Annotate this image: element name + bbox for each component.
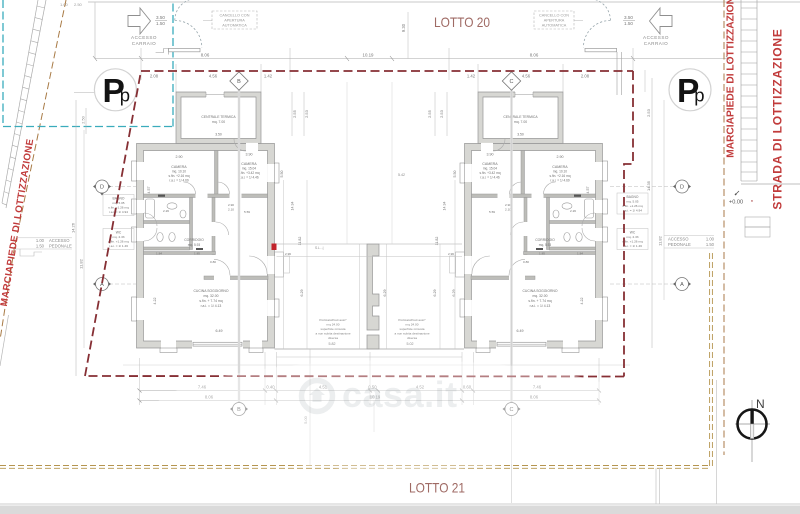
svg-text:CARRAIO: CARRAIO xyxy=(644,41,668,46)
accesso pedonale left xyxy=(36,238,72,249)
CT side dims left xyxy=(292,109,444,118)
wc bottom wall xyxy=(144,247,190,250)
svg-text:s.fin. +3.42 mq: s.fin. +3.42 mq xyxy=(239,171,260,175)
red wall marker xyxy=(272,244,277,251)
svg-text:A: A xyxy=(680,282,684,288)
wc callout left xyxy=(103,229,134,250)
center gap verticals xyxy=(346,82,348,244)
bagno/wc divider xyxy=(144,221,190,224)
svg-text:a non subita destinazione: a non subita destinazione xyxy=(315,332,350,336)
cancello box right xyxy=(534,11,574,29)
teal dashed right vertical xyxy=(172,0,174,127)
svg-text:mq 24.00: mq 24.00 xyxy=(327,323,340,327)
svg-text:mq. 5.93: mq. 5.93 xyxy=(188,243,201,247)
svg-text:CENTRALE TERMICA: CENTRALE TERMICA xyxy=(503,115,538,119)
svg-text:casa.it: casa.it xyxy=(342,374,458,415)
right cucina label xyxy=(517,289,558,333)
brown dashed lot strip line xyxy=(723,0,725,455)
svg-text:r.a.i. = 1/ 4.46: r.a.i. = 1/ 4.46 xyxy=(480,176,500,180)
svg-text:1.50: 1.50 xyxy=(156,21,165,26)
svg-text:5.02: 5.02 xyxy=(407,342,414,346)
sidewalk right rail (diagonal) xyxy=(6,0,46,208)
tan double dashed right vertical xyxy=(709,253,711,468)
tan double dashed bottom line xyxy=(0,465,711,467)
svg-text:3.50: 3.50 xyxy=(215,133,222,137)
section marker C bottom xyxy=(503,403,521,416)
door arcs xyxy=(144,139,267,275)
svg-text:r.a.i. = 1/ 4.69: r.a.i. = 1/ 4.69 xyxy=(550,179,570,183)
right dim vertical 1 xyxy=(651,78,653,348)
svg-text:STRADA DI LOTTIZZAZIONE: STRADA DI LOTTIZZAZIONE xyxy=(771,28,785,209)
svg-text:r.a.i. = 1/ 4.94: r.a.i. = 1/ 4.94 xyxy=(109,210,128,214)
section marker D right xyxy=(673,180,691,193)
svg-text:2.55: 2.55 xyxy=(292,109,297,118)
right misc dims xyxy=(448,203,583,264)
teal dashed left vertical xyxy=(2,0,4,127)
small dim verticals right of red line xyxy=(644,70,646,92)
svg-text:mq. 5.93: mq. 5.93 xyxy=(539,243,552,247)
svg-text:3.50: 3.50 xyxy=(517,133,524,137)
svg-text:S.L. -|: S.L. -| xyxy=(315,246,324,250)
svg-text:mq. 32.00: mq. 32.00 xyxy=(532,294,547,298)
svg-text:6.49: 6.49 xyxy=(216,329,223,333)
svg-text:5.50: 5.50 xyxy=(280,171,284,178)
ACCESSO CARRAIO right xyxy=(643,35,669,46)
svg-text:2.90: 2.90 xyxy=(228,203,234,207)
svg-text:s.fin. +3.42 mq: s.fin. +3.42 mq xyxy=(480,171,501,175)
left gate swing arcs xyxy=(175,0,202,47)
sidewalk slab rungs right xyxy=(741,8,757,181)
svg-text:10.19: 10.19 xyxy=(363,53,375,58)
svg-text:r.a.i. = 1/ 4.94: r.a.i. = 1/ 4.94 xyxy=(623,209,642,213)
bottom gray bar xyxy=(0,506,800,514)
svg-text:1.50: 1.50 xyxy=(36,244,45,249)
right wall entrance door gap xyxy=(267,256,275,274)
svg-text:CAMERA: CAMERA xyxy=(552,165,568,169)
svg-text:1.00: 1.00 xyxy=(706,237,715,242)
svg-text:N: N xyxy=(756,397,765,411)
dim extension verticals top xyxy=(141,12,633,92)
casa.it watermark xyxy=(302,374,458,415)
svg-text:LOTTO 21: LOTTO 21 xyxy=(409,480,465,496)
svg-text:mq. 2.33: mq. 2.33 xyxy=(112,235,124,239)
svg-text:ACCESSO: ACCESSO xyxy=(131,35,157,40)
sidewalk corner line xyxy=(741,183,800,185)
svg-text:mq. 2.33: mq. 2.33 xyxy=(626,235,638,239)
porch vertical guide lines xyxy=(284,180,455,349)
compass rose xyxy=(751,400,753,462)
svg-text:3.90: 3.90 xyxy=(487,153,494,157)
svg-text:mq. 32.00: mq. 32.00 xyxy=(203,294,218,298)
pedestrian path edges left xyxy=(16,237,72,239)
svg-text:1.84: 1.84 xyxy=(577,252,583,256)
cancello leader left xyxy=(203,20,212,22)
svg-text:diversa: diversa xyxy=(328,336,338,340)
section marker D left xyxy=(93,180,111,196)
section marker A left xyxy=(93,278,111,291)
svg-text:ACCESSO: ACCESSO xyxy=(668,237,689,242)
svg-text:1.50: 1.50 xyxy=(706,242,715,247)
svg-text:0.80: 0.80 xyxy=(210,260,216,264)
right arrow dims 3.50/1.50 xyxy=(624,15,633,26)
svg-text:1.42: 1.42 xyxy=(467,74,476,79)
right gate swing arcs xyxy=(583,0,610,47)
section line C vertical xyxy=(510,88,512,403)
bottom bar top line xyxy=(0,503,800,505)
red boundary top edge xyxy=(141,70,633,72)
parking symbol right xyxy=(669,69,711,111)
svg-text:CANCELLO CON: CANCELLO CON xyxy=(220,14,250,18)
svg-text:CAMERA: CAMERA xyxy=(482,162,498,166)
long verticals below plan xyxy=(309,349,311,465)
svg-text:6.29: 6.29 xyxy=(452,290,456,297)
svg-text:11.82: 11.82 xyxy=(79,258,84,268)
svg-text:3.50: 3.50 xyxy=(624,15,633,20)
svg-text:14.35: 14.35 xyxy=(646,180,651,191)
svg-text:r.a.i. = 1/ 4.13: r.a.i. = 1/ 4.13 xyxy=(201,304,222,308)
svg-text:AUTOMATICA: AUTOMATICA xyxy=(222,24,247,28)
double gray vertical below tan line xyxy=(655,468,657,504)
centrale termica annex walls xyxy=(176,92,261,144)
bagno callout left xyxy=(103,195,134,216)
right camera 15.04 label xyxy=(480,153,501,180)
svg-text:r.a.i. = 1/ 1.46: r.a.i. = 1/ 1.46 xyxy=(109,244,128,248)
svg-text:6.49: 6.49 xyxy=(517,329,524,333)
svg-text:8.06: 8.06 xyxy=(201,53,210,58)
svg-text:ACCESSO: ACCESSO xyxy=(643,35,669,40)
top dimension chain line xyxy=(95,58,728,60)
radiator marks xyxy=(158,195,165,197)
svg-text:2.10: 2.10 xyxy=(228,208,234,212)
svg-text:s.fin. +1.26 mq: s.fin. +1.26 mq xyxy=(108,206,129,210)
section D leader dashes xyxy=(109,187,675,285)
svg-text:14.26: 14.26 xyxy=(71,222,76,233)
svg-text:CAMERA: CAMERA xyxy=(241,162,257,166)
left arrow dims 3.50/1.50 xyxy=(156,15,165,26)
svg-text:D: D xyxy=(680,185,684,191)
wc fixtures xyxy=(157,233,163,242)
left misc dims xyxy=(156,203,291,264)
svg-text:MARCIAPIEDE DI LOTTIZZAZIONE: MARCIAPIEDE DI LOTTIZZAZIONE xyxy=(726,0,737,158)
svg-text:r.a.i. = 1/ 4.69: r.a.i. = 1/ 4.69 xyxy=(169,179,189,183)
svg-text:D: D xyxy=(100,185,104,191)
right access arrow xyxy=(650,8,673,34)
svg-text:ACCESSO: ACCESSO xyxy=(49,238,70,243)
kitchen top wall xyxy=(204,276,268,280)
svg-text:mq. 10.10: mq. 10.10 xyxy=(553,170,567,174)
top dim labels xyxy=(201,53,539,58)
lower slab pair xyxy=(745,217,770,227)
svg-text:mq. 7.00: mq. 7.00 xyxy=(514,120,527,124)
svg-text:superficie minusta: superficie minusta xyxy=(321,327,346,331)
sidewalk slabs column rails xyxy=(740,0,742,181)
svg-text:BAGNO: BAGNO xyxy=(627,195,639,199)
svg-text:6.29: 6.29 xyxy=(383,290,387,297)
left cucina label xyxy=(193,289,228,333)
svg-text:+0.00: +0.00 xyxy=(729,200,743,206)
left dim vertical 1 xyxy=(75,100,77,376)
svg-text:6.29: 6.29 xyxy=(300,290,304,297)
svg-text:s.fin. + 7.74 mq: s.fin. + 7.74 mq xyxy=(199,299,222,303)
svg-text:1.85: 1.85 xyxy=(539,252,545,256)
left access arrow xyxy=(128,8,151,34)
svg-text:2.96: 2.96 xyxy=(285,252,291,256)
svg-text:3.90: 3.90 xyxy=(246,153,253,157)
sidewalk tan dashed edge xyxy=(0,0,66,340)
bottom dim row 1 xyxy=(140,390,600,392)
svg-text:CUCINA SOGGIORNO: CUCINA SOGGIORNO xyxy=(522,289,557,293)
svg-text:CENTRALE TERMICA: CENTRALE TERMICA xyxy=(201,115,236,119)
svg-text:0.80: 0.80 xyxy=(523,260,529,264)
svg-text:2.26: 2.26 xyxy=(570,209,576,213)
right rotated dims xyxy=(433,171,590,305)
svg-text:2.90: 2.90 xyxy=(557,155,564,159)
svg-text:mq. 15.04: mq. 15.04 xyxy=(242,167,256,171)
svg-text:14.34: 14.34 xyxy=(443,202,447,211)
svg-text:mq 24.00: mq 24.00 xyxy=(406,323,419,327)
left camera 1 label xyxy=(169,155,190,183)
svg-text:mq. 5.05: mq. 5.05 xyxy=(626,200,638,204)
porticato posti auto text left bay xyxy=(315,318,350,340)
svg-text:LOTTO 20: LOTTO 20 xyxy=(434,14,490,30)
sidewalk slab rungs xyxy=(2,6,45,205)
right corridoio label xyxy=(535,238,555,247)
svg-text:s.fin. +1.26 mq: s.fin. +1.26 mq xyxy=(622,204,643,208)
CT-house door gap xyxy=(246,143,258,151)
svg-text:4.57: 4.57 xyxy=(147,187,151,194)
gray vertical right of tan xyxy=(716,380,718,504)
svg-text:mq. 15.04: mq. 15.04 xyxy=(483,167,497,171)
right dim vertical 2 xyxy=(663,100,665,300)
top dim ticks xyxy=(93,56,730,61)
red boundary bottom edge xyxy=(85,375,624,378)
haze behind watermark xyxy=(150,360,650,470)
svg-text:2.55: 2.55 xyxy=(427,109,432,118)
svg-text:CORRIDOIO: CORRIDOIO xyxy=(184,238,204,242)
svg-text:AUTOMATICA: AUTOMATICA xyxy=(542,24,567,28)
svg-text:2.96: 2.96 xyxy=(448,252,454,256)
svg-text:PEDONALE: PEDONALE xyxy=(49,244,72,249)
ACCESSO CARRAIO left xyxy=(131,35,157,46)
right gate leaf xyxy=(585,48,617,51)
svg-text:mq. 7.00: mq. 7.00 xyxy=(212,120,225,124)
entrance steps xyxy=(275,252,284,277)
left gate leaf xyxy=(169,48,200,51)
porticato posti auto text right bay xyxy=(394,318,429,340)
svg-text:s.fin. +1.26 mq: s.fin. +1.26 mq xyxy=(108,240,129,244)
svg-text:4.22: 4.22 xyxy=(153,298,157,305)
svg-text:p: p xyxy=(120,85,130,106)
svg-text:B: B xyxy=(237,79,241,85)
svg-text:2.53: 2.53 xyxy=(439,109,444,118)
svg-text:9.30: 9.30 xyxy=(401,23,406,32)
left frame stub xyxy=(94,2,96,59)
right CT label xyxy=(503,115,538,137)
right wall lower window gap + sill xyxy=(267,300,275,316)
mini dim near left parking xyxy=(74,92,95,94)
corridor bottom wall xyxy=(144,252,216,255)
svg-text:WC: WC xyxy=(630,231,636,235)
porch floor edge xyxy=(275,348,465,350)
bottom extension verticals xyxy=(140,352,600,405)
svg-text:CANCELLO CON: CANCELLO CON xyxy=(539,14,569,18)
svg-text:2.53: 2.53 xyxy=(646,108,651,117)
bagno callout right xyxy=(617,193,648,214)
red boundary right upper xyxy=(624,71,633,377)
svg-text:s.fin. +2.16 mq: s.fin. +2.16 mq xyxy=(550,174,571,178)
svg-text:2.08: 2.08 xyxy=(581,74,590,79)
central pillar wall xyxy=(367,244,379,330)
house outer wall band xyxy=(137,144,275,349)
bottom dim labels row1 xyxy=(198,385,542,390)
wc callout right xyxy=(617,229,648,250)
top frame line xyxy=(88,1,800,3)
svg-text:8.06: 8.06 xyxy=(530,53,539,58)
svg-text:2.08: 2.08 xyxy=(150,74,159,79)
svg-text:2.53: 2.53 xyxy=(304,109,309,118)
bottom dim labels row2 xyxy=(205,395,539,400)
cancello leader right xyxy=(574,20,583,22)
svg-text:1.85: 1.85 xyxy=(194,252,200,256)
svg-text:4.56: 4.56 xyxy=(522,74,531,79)
section line B vertical xyxy=(238,88,240,403)
porch step line xyxy=(277,356,463,358)
svg-text:mq. 10.10: mq. 10.10 xyxy=(172,170,186,174)
svg-text:4.22: 4.22 xyxy=(580,298,584,305)
partition below bedrooms xyxy=(144,194,268,198)
svg-text:2.50: 2.50 xyxy=(74,2,83,7)
left dim vertical 2 xyxy=(83,130,85,348)
svg-text:1.84: 1.84 xyxy=(156,252,162,256)
svg-text:11.82: 11.82 xyxy=(658,235,663,245)
section marker C top xyxy=(502,72,520,90)
right camera 10.10 label xyxy=(550,155,571,183)
svg-text:5.50: 5.50 xyxy=(453,171,457,178)
section marker B top xyxy=(230,72,248,90)
svg-text:2.90: 2.90 xyxy=(176,155,183,159)
svg-text:s.fin. +2.16 mq: s.fin. +2.16 mq xyxy=(169,174,190,178)
svg-text:mq. 5.05: mq. 5.05 xyxy=(112,201,124,205)
sidewalk left rail (diagonal) xyxy=(2,0,38,203)
svg-text:4.57: 4.57 xyxy=(586,187,590,194)
right gate posts xyxy=(616,52,618,95)
svg-text:a non subita destinazione: a non subita destinazione xyxy=(394,332,429,336)
bagno fixtures xyxy=(167,203,177,209)
svg-text:r.a.i. = 1/ 1.46: r.a.i. = 1/ 1.46 xyxy=(623,244,642,248)
section marker A right xyxy=(673,278,691,291)
parking symbol left xyxy=(94,69,136,111)
cancello box left xyxy=(212,11,257,29)
svg-text:APERTURA: APERTURA xyxy=(224,19,245,23)
svg-text:r.a.i. = 1/ 4.13: r.a.i. = 1/ 4.13 xyxy=(530,304,551,308)
svg-text:C: C xyxy=(510,79,514,85)
svg-text:5.82: 5.82 xyxy=(329,342,336,346)
section marker B bottom xyxy=(230,403,248,416)
svg-text:4.56: 4.56 xyxy=(209,74,218,79)
svg-text:1.42: 1.42 xyxy=(264,74,273,79)
svg-text:s.fin. + 7.74 mq: s.fin. + 7.74 mq xyxy=(528,299,551,303)
svg-text:5.59: 5.59 xyxy=(489,210,495,214)
pedestrian path edges right xyxy=(664,235,714,237)
svg-text:14.34: 14.34 xyxy=(291,202,295,211)
svg-text:APERTURA: APERTURA xyxy=(544,19,565,23)
right wall window gap + sill xyxy=(267,164,275,182)
svg-text:1.00: 1.00 xyxy=(36,238,45,243)
svg-text:PEDONALE: PEDONALE xyxy=(668,242,691,247)
svg-text:CUCINA SOGGIORNO: CUCINA SOGGIORNO xyxy=(193,289,228,293)
svg-text:5.42: 5.42 xyxy=(398,173,405,177)
left CT label xyxy=(201,115,236,137)
porch top edge lines xyxy=(277,243,368,245)
left rotated dims xyxy=(147,171,387,305)
right house (mirrored) xyxy=(450,91,608,352)
teal dashed bottom horizontal xyxy=(3,126,173,128)
svg-text:CARRAIO: CARRAIO xyxy=(132,41,156,46)
left camera 2 label xyxy=(239,153,260,180)
svg-text:PorticatoPosti auto*: PorticatoPosti auto* xyxy=(398,318,426,322)
red boundary left diagonal xyxy=(85,71,141,376)
svg-text:3.50: 3.50 xyxy=(156,15,165,20)
CT top window gap xyxy=(206,91,224,97)
bottom wall window gaps + sills xyxy=(161,340,176,348)
svg-text:WC: WC xyxy=(116,231,122,235)
left corridoio label xyxy=(184,238,204,247)
corridor vertical wall xyxy=(212,198,215,255)
partition between bedrooms xyxy=(215,151,219,195)
svg-text:CORRIDOIO: CORRIDOIO xyxy=(535,238,555,242)
svg-text:6.29: 6.29 xyxy=(433,290,437,297)
terrace line xyxy=(123,364,630,366)
svg-text:p: p xyxy=(694,85,704,106)
svg-text:1.50: 1.50 xyxy=(624,21,633,26)
svg-text:5.59: 5.59 xyxy=(244,210,250,214)
svg-text:superficie minusta: superficie minusta xyxy=(400,327,425,331)
svg-text:2.50: 2.50 xyxy=(82,116,86,123)
bath partition vertical xyxy=(190,198,193,250)
second dim row labels xyxy=(150,74,590,79)
bottom dim row 2 xyxy=(140,400,600,402)
left wall window gaps + sills xyxy=(136,162,144,180)
svg-text:CAMERA: CAMERA xyxy=(171,165,187,169)
svg-text:2.26: 2.26 xyxy=(163,209,169,213)
svg-text:r.a.i. = 1/ 4.46: r.a.i. = 1/ 4.46 xyxy=(239,176,259,180)
svg-text:s.fin. +1.26 mq: s.fin. +1.26 mq xyxy=(622,240,643,244)
accesso pedonale right xyxy=(668,237,715,248)
bottom dim ticks xyxy=(138,389,602,403)
svg-text:PorticatoPosti auto*: PorticatoPosti auto* xyxy=(319,318,347,322)
svg-text:diversa: diversa xyxy=(407,336,417,340)
sidewalk rail lower continuation xyxy=(0,315,9,366)
